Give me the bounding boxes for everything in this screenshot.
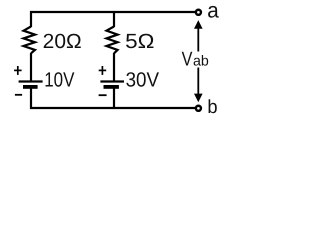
svg-text:ab: ab [193,53,209,69]
svg-text:10V: 10V [44,68,74,91]
svg-text:b: b [207,97,217,118]
svg-text:a: a [207,0,219,23]
svg-text:20Ω: 20Ω [43,30,82,53]
svg-text:V: V [182,48,193,70]
svg-text:30V: 30V [126,68,160,91]
svg-text:5Ω: 5Ω [125,30,154,53]
